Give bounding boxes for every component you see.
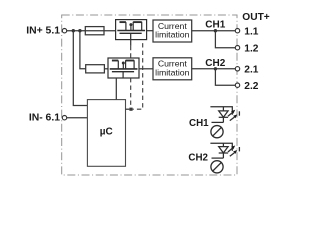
wire Q2 gate to uC (solid) bbox=[115, 78, 117, 100]
wire Q2 to current limitation 2 bbox=[139, 68, 153, 70]
wire terminal 6.1 to uC bbox=[67, 117, 88, 119]
svg-text:OUT+: OUT+ bbox=[242, 12, 270, 23]
svg-text:limitation: limitation bbox=[155, 30, 189, 40]
dashed control line Q1 gate down to uC bbox=[130, 40, 132, 46]
wire junction to uC right edge bbox=[126, 108, 130, 110]
terminal 2.1 bbox=[235, 67, 239, 71]
svg-text:CH1: CH1 bbox=[205, 19, 225, 30]
LED indicator CH1 bbox=[210, 107, 232, 123]
LED CH2 light-exit tick on housing bbox=[238, 147, 240, 151]
transistor Q1 (electronic switch, channel 1) bbox=[116, 20, 147, 40]
terminal 1.1 bbox=[235, 29, 239, 33]
LED CH1 emission arrow 2 bbox=[230, 117, 235, 121]
wire fuse F2 to Q2 bbox=[104, 68, 108, 70]
fuse F2 bbox=[86, 65, 105, 73]
wire IN+ sense down to uC bbox=[73, 31, 87, 106]
svg-text:CH2: CH2 bbox=[205, 58, 225, 69]
wire branch down to terminal 1.2 bbox=[215, 31, 235, 48]
wire channel-2 feed down to fuse F2 bbox=[80, 31, 86, 69]
wire current limitation 2 to terminal 2.1 bbox=[192, 68, 236, 70]
transistor Q2 (electronic switch, channel 2) bbox=[108, 58, 139, 78]
fuse F1 bbox=[85, 27, 104, 35]
LED CH2 emission arrow 2 bbox=[230, 153, 235, 157]
module enclosure dash-dot border bbox=[62, 15, 237, 175]
wire Q1 to current limitation 1 bbox=[147, 30, 153, 32]
node junction B (channel 2 tap) bbox=[78, 29, 81, 32]
wire row1 from terminal 5.1 to Q1 bbox=[67, 30, 116, 32]
svg-text:1.2: 1.2 bbox=[244, 44, 258, 55]
microcontroller U1 bbox=[87, 100, 125, 167]
svg-text:2.2: 2.2 bbox=[244, 81, 258, 92]
node control junction dot bbox=[129, 108, 132, 111]
wire current limitation 1 to terminal 1.1 bbox=[192, 30, 236, 32]
svg-text:2.1: 2.1 bbox=[244, 65, 258, 76]
svg-text:µC: µC bbox=[100, 126, 113, 137]
LED CH1 light-exit tick on housing bbox=[238, 111, 240, 115]
LED CH1 emission arrow 1 bbox=[228, 110, 237, 121]
node CH2 output junction bbox=[214, 67, 217, 70]
wire branch down to terminal 2.2 bbox=[215, 69, 235, 85]
terminal 5.1 bbox=[62, 29, 66, 33]
svg-text:1.1: 1.1 bbox=[244, 27, 258, 38]
svg-text:CH2: CH2 bbox=[188, 152, 208, 163]
terminal 6.1 bbox=[62, 116, 66, 120]
terminal 1.2 bbox=[235, 46, 239, 50]
node CH1 output junction bbox=[214, 29, 217, 32]
node junction A (IN+ sense tap) bbox=[72, 29, 75, 32]
svg-text:IN- 6.1: IN- 6.1 bbox=[29, 113, 60, 124]
svg-text:IN+ 5.1: IN+ 5.1 bbox=[26, 26, 60, 37]
current limitation block 1 bbox=[153, 20, 192, 42]
current limitation block 2 bbox=[153, 58, 192, 80]
svg-text:limitation: limitation bbox=[155, 67, 189, 77]
LED CH2 emission arrow 1 bbox=[228, 145, 237, 156]
svg-text:CH1: CH1 bbox=[189, 118, 209, 129]
terminal 2.2 bbox=[235, 83, 239, 87]
LED indicator CH2 bbox=[210, 143, 232, 158]
dashed feedback line from Q1 drain side bbox=[133, 40, 143, 109]
adjustment screw channel 2 bbox=[211, 161, 223, 173]
adjustment screw channel 1 bbox=[211, 126, 223, 138]
